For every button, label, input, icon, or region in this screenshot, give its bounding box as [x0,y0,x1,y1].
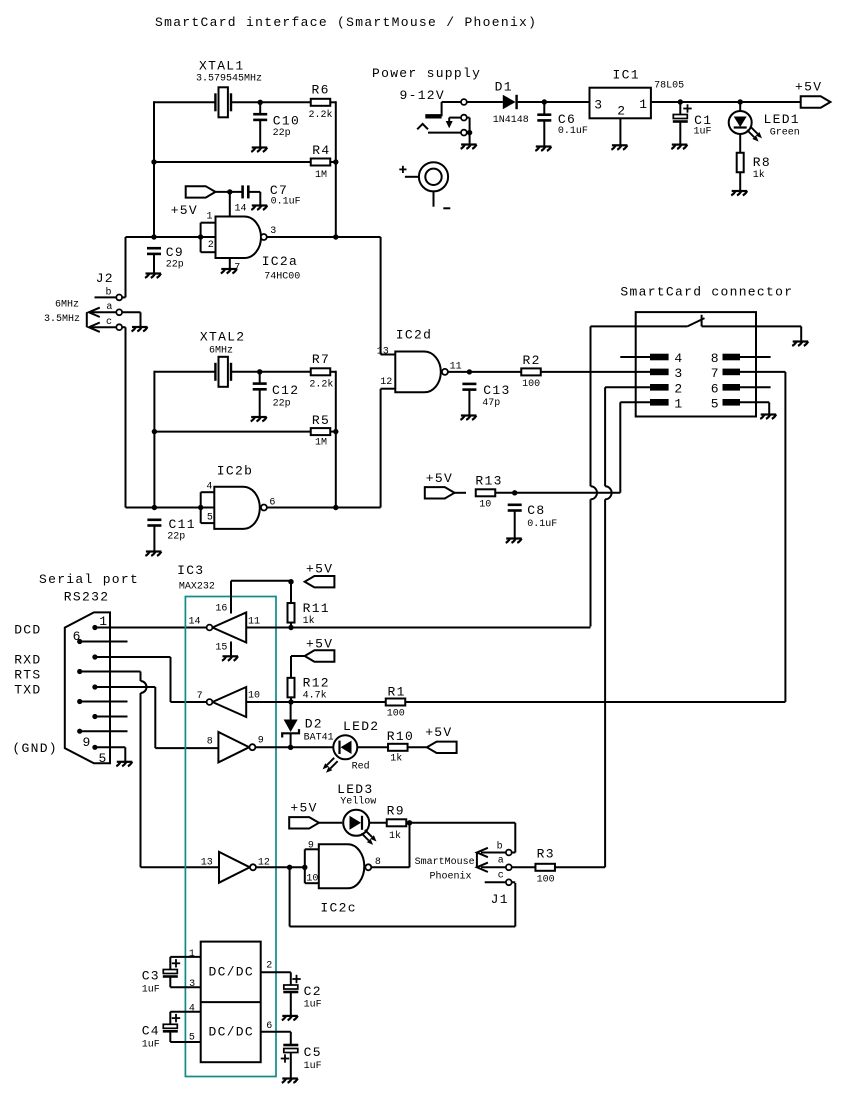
svg-text:+5V: +5V [290,801,317,816]
bubble IC2b output [261,505,267,511]
pad card pin 6 [711,381,740,396]
wire XTAL1 top rail [154,101,311,103]
svg-text:3.5MHz: 3.5MHz [44,314,80,325]
wire R7 to right vertical [330,371,336,508]
svg-text:C10: C10 [273,113,300,128]
svg-text:R8: R8 [753,155,771,170]
signal label RTS [14,668,41,683]
svg-text:14: 14 [235,204,247,215]
wire DB9 pin9 stub [80,730,128,732]
svg-text:7: 7 [711,366,720,381]
capacitor C1 [673,104,713,137]
wire R11 stem bottom [290,623,292,628]
pad card pin 2 [650,381,684,396]
wire C9 stem [153,254,155,274]
svg-text:8: 8 [711,351,720,366]
wire RTS net [80,672,219,868]
svg-text:0.1uF: 0.1uF [271,197,301,208]
svg-text:R11: R11 [303,601,330,616]
resistor R11 [288,601,330,627]
wire D2 stem [290,702,292,747]
svg-text:D2: D2 [305,717,323,732]
svg-text:C11: C11 [169,517,196,532]
wire GND pin5 stub [95,747,125,762]
connector J2 label [96,271,114,286]
pin label 11 IC3 [248,617,260,628]
dcdc converter box [201,942,261,1063]
svg-text:47p: 47p [482,398,500,409]
pin label 5 DB9 [99,751,108,766]
node IC2b bracket junction [198,505,203,510]
svg-text:1uF: 1uF [694,127,712,138]
svg-text:R10: R10 [387,729,414,744]
svg-text:1uF: 1uF [304,1061,322,1072]
svg-text:6: 6 [711,381,720,396]
ground card pin5 [760,415,776,419]
svg-text:2.2k: 2.2k [309,378,333,390]
resistor R12 [288,676,330,702]
pin J2-c [106,317,122,330]
wire DB9 pin4 stub [95,716,128,718]
pin DB9 left-col 8 [77,699,82,704]
node IC2b out right vertical [333,505,338,510]
resistor R10 [387,729,414,765]
svg-text:1k: 1k [390,753,402,765]
svg-text:IC2b: IC2b [217,464,253,479]
smartcard connector heading [620,285,793,300]
svg-text:+5V: +5V [171,203,198,218]
pin label 11 IC2d [450,362,462,373]
svg-text:TXD: TXD [14,683,41,698]
svg-text:DC/DC: DC/DC [209,1025,255,1040]
node IC2c bracket junction [302,865,307,870]
svg-text:RTS: RTS [14,668,41,683]
node pin14 junction [227,189,232,194]
wire IC2b input feed [126,507,215,509]
svg-text:10: 10 [248,691,260,702]
wire IC2b input bracket [201,492,215,523]
wire jack to D1 [467,101,503,103]
svg-text:IC1: IC1 [613,68,640,83]
wire R2 to card pin3 [541,371,650,373]
capacitor C11 [147,517,195,543]
power flag +5V R13 [425,471,455,499]
svg-text:BAT41: BAT41 [304,733,334,744]
svg-text:2: 2 [208,240,214,251]
svg-text:4.7k: 4.7k [303,690,327,702]
wire DCD pin1 to T1 [95,627,207,629]
LED LED3 [337,782,376,845]
svg-text:IC2d: IC2d [396,328,432,343]
pin label 12 IC3 [258,858,270,869]
wire J2-b stub [95,296,117,298]
svg-text:3: 3 [594,98,603,113]
wire C6 stem [543,102,545,147]
wire card switch right [702,326,802,341]
regulator IC1 [590,68,685,119]
pin label 9 DB9 [83,735,92,750]
wire hop RTS over TXD [141,681,147,693]
pin label 14 IC3 [189,617,201,628]
wire IC2c input bracket [305,849,319,883]
svg-text:15: 15 [215,643,227,654]
pin label 4 IC2b [206,481,212,492]
wire C1 stem [679,102,681,145]
smartcard connector box [636,312,756,416]
svg-text:XTAL2: XTAL2 [200,330,246,345]
wire J1-c stub [485,881,506,883]
wire IC2a input bracket [201,223,216,253]
wire card pin5 to ground [740,402,769,414]
svg-text:IC2a: IC2a [262,254,298,269]
wire R3 to card pin2 net [555,866,605,868]
bubble IC2c output [365,864,371,870]
pin label 9 IC3 [258,736,264,747]
ground C13 [460,416,476,420]
capacitor C3 [142,959,181,995]
ground C6 [535,147,551,151]
svg-text:1: 1 [639,97,648,112]
buffer IC3 T2 [213,687,247,717]
bubble IC3 T4 output [250,864,256,870]
ground C1 [671,145,687,149]
pin J2-a [106,302,122,315]
diode D1 [493,80,529,127]
power flag +5V IC2a [171,186,216,218]
pin DB9 right-col 5 [92,745,97,750]
svg-text:8: 8 [375,857,381,868]
svg-text:1k: 1k [753,169,765,181]
pin DB9 left-col 6 [77,639,82,644]
op-gate IC2d NAND [395,328,441,393]
svg-text:C9: C9 [166,245,184,260]
resistor R2 [521,353,541,390]
wire J2-b up [122,237,125,297]
resistor R1 [386,685,406,720]
ground C7 [251,206,267,210]
svg-text:IC3: IC3 [177,563,204,578]
pin label 6 dcdc [266,1021,272,1032]
wire hop pin2 net over R13 line [605,486,612,499]
node R9 output [407,820,412,825]
LED LED1 [729,111,800,142]
arrow J1 select SmartMouse [415,848,488,868]
svg-text:1N4148: 1N4148 [493,115,529,126]
pin J1-a [498,856,512,871]
wire +5V to LED3 [319,822,342,824]
pin label 14 IC2a [235,204,247,215]
resistor R8 [737,153,771,181]
capacitor C5 [281,1045,322,1072]
bubble IC3 T2 output [207,699,213,705]
svg-text:LED3: LED3 [337,782,373,797]
svg-text:9: 9 [258,736,264,747]
svg-text:1: 1 [207,212,213,223]
pin label 2 IC2a [208,240,214,251]
svg-text:LED2: LED2 [343,719,379,734]
power flag +5V R11 [305,562,335,588]
wire R9 to J1-b net [406,823,515,853]
svg-text:+5V: +5V [795,80,822,95]
diode D2 BAT41 [282,717,333,744]
capacitor C8 [508,503,558,530]
pin label 5 IC2b [207,512,213,523]
svg-text:1M: 1M [315,170,327,181]
svg-text:0.1uF: 0.1uF [558,126,588,137]
ground IC2a pin7 [221,269,237,273]
svg-text:R9: R9 [387,804,405,819]
pin J1-c [498,871,512,886]
svg-text:11: 11 [248,617,260,628]
wire jack sleeve to ground [467,118,470,145]
svg-text:MAX232: MAX232 [179,582,215,593]
signal label TXD [14,683,41,698]
svg-text:DC/DC: DC/DC [209,965,255,980]
pin label 1 IC2a [207,212,213,223]
svg-text:R13: R13 [475,474,502,489]
bubble IC2a output [261,234,267,240]
IC3 box outline [185,597,276,1077]
ground C9 [145,274,161,278]
pin label 4 dcdc [189,1004,195,1015]
svg-text:RS232: RS232 [64,590,110,605]
pin label 8 IC2c [375,857,381,868]
wire IC2d output [448,371,521,373]
svg-text:C12: C12 [272,383,299,398]
ground card switch [792,342,808,346]
wire C7 to ground [248,192,260,206]
svg-text:7: 7 [197,691,203,702]
wire DB9 pin8 stub [80,701,128,703]
power flag +5V LED3 [289,801,319,829]
svg-text:22p: 22p [167,532,185,543]
op-gate IC2b NAND [214,464,260,529]
svg-text:0.1uF: 0.1uF [527,519,557,530]
wire T2 out row [246,701,386,703]
capacitor C9 [147,245,184,271]
wire J2-c down [122,327,125,507]
node IC2a input junction [198,234,203,239]
pin label 2 dcdc [266,961,272,972]
wire card pin6 stub [740,386,771,388]
svg-text:1k: 1k [389,830,401,842]
wire TXD net [95,687,218,748]
node XTAL2-C12 junction [257,369,262,374]
arrow J2 select 6MHz [55,300,100,318]
pad card pin 4 [650,351,684,366]
pin label 13 IC3 [201,858,213,869]
wire R6 to right vertical [330,101,336,237]
pin J1-b [497,841,512,856]
ground IC1 [611,145,627,149]
wire C3 loop [170,957,200,987]
wire card switch left [591,325,688,327]
svg-text:1k: 1k [303,615,315,627]
svg-text:22p: 22p [273,128,291,139]
wire C8 stem [514,511,516,539]
svg-text:(GND): (GND) [12,741,58,756]
pad card pin 5 [711,396,740,411]
node LED1 junction [738,99,743,104]
connector J1 label [491,892,509,907]
ground DB9 pin5 [116,762,132,766]
wire RXD net [95,657,207,702]
svg-text:2.2k: 2.2k [309,109,333,121]
capacitor C4 [142,1014,181,1050]
resistor R5 [311,413,331,449]
svg-text:C6: C6 [558,112,576,127]
svg-text:R5: R5 [312,413,330,428]
node R11 top [288,579,293,584]
svg-text:3: 3 [189,979,195,990]
svg-text:6MHz: 6MHz [55,300,79,311]
capacitor C13 [462,383,510,409]
resistor R9 [387,804,407,843]
node R12 bottom [288,699,293,704]
svg-text:8: 8 [207,737,213,748]
svg-text:SmartCard connector: SmartCard connector [620,285,793,300]
pin label 3 IC2a [270,226,276,237]
wire J1-b stub [481,852,506,854]
svg-text:R7: R7 [312,352,330,367]
svg-text:RXD: RXD [14,653,41,668]
wire R12 from +5V [291,656,305,682]
wire IC2b output [267,389,381,508]
wire T4 to IC2c input [256,866,305,868]
svg-text:2: 2 [674,381,683,396]
bubble IC3 T3 output [249,744,255,750]
pin label 1 DB9 [99,614,108,629]
buffer IC3 T4 [219,852,250,883]
svg-text:C2: C2 [304,984,322,999]
wire card pin7 net [740,372,785,702]
power flag +5V R12 [305,637,335,662]
svg-text:Red: Red [352,761,370,773]
wire R9 node down to IC2c out [371,823,409,868]
svg-text:+5V: +5V [425,725,452,740]
node jack sleeve junction [467,130,472,135]
wire IC2d pin13 stub [381,354,396,356]
svg-text:R4: R4 [312,143,330,158]
wire J2 arrow bar [86,312,88,327]
wire IC2a output [267,237,381,355]
pin label 9 IC2c [308,841,314,852]
svg-text:Green: Green [770,128,800,139]
svg-text:10: 10 [479,500,491,511]
wire hop switch net over R13 line [591,486,598,499]
wire XTAL2 left vertical [153,371,155,508]
pad card pin 1 [650,396,684,411]
pad card pin 8 [711,351,740,366]
svg-text:C13: C13 [483,383,510,398]
pin DB9 right-col 3 [92,684,97,689]
svg-text:11: 11 [450,362,462,373]
wire DB9 pin6 stub [80,641,128,643]
wire C13 stem [468,390,470,416]
svg-text:3: 3 [674,366,683,381]
ground C8 [506,539,522,543]
svg-text:100: 100 [387,709,405,720]
node D2 bottom [288,745,293,750]
wire pin2 to C2 [261,972,291,1016]
wire +5V to pin14 [215,192,242,217]
power jack [417,99,467,135]
svg-text:C4: C4 [142,1023,160,1038]
svg-text:C8: C8 [527,503,545,518]
pin label 6 DB9 [73,629,82,644]
wire R11 stem top [290,582,292,608]
node R4 right [333,159,338,164]
svg-text:C3: C3 [142,969,160,984]
wire card pin4 stub [620,356,650,358]
node C13 junction [467,369,472,374]
signal label DCD [14,623,41,638]
wire XTAL2 rail [154,371,311,373]
node R11 bottom [288,625,293,630]
pin J2-b [106,287,123,301]
svg-text:13: 13 [201,858,213,869]
LED LED2 [323,719,380,773]
IC3 label [177,563,215,593]
pin label 10 IC2c [306,874,318,885]
node R5 right [333,429,338,434]
pin label 5 dcdc [189,1033,195,1044]
power flag +5V rail [795,80,830,108]
resistor R6 [309,83,333,122]
ground C10 [251,148,267,152]
svg-text:Phoenix: Phoenix [429,871,471,883]
node C1 junction [678,99,683,104]
ground R8 [731,191,747,195]
svg-text:9: 9 [83,735,92,750]
pin label 3 dcdc [189,979,195,990]
wire IC2a input feed [126,236,216,238]
capacitor C10 [253,113,300,139]
node IC2a out right vertical [333,234,338,239]
wire C4 loop [170,1012,200,1042]
wire left vertical x154 [153,101,155,237]
wire R13 net to card pin1 [515,492,621,494]
svg-text:2: 2 [617,104,626,119]
svg-text:9-12V: 9-12V [400,88,446,103]
svg-text:1: 1 [674,396,683,411]
capacitor C7 [243,183,301,208]
svg-text:Yellow: Yellow [340,796,376,808]
wire IC2c feedback loop [290,867,516,926]
svg-text:+5V: +5V [306,562,333,577]
svg-text:22p: 22p [273,399,291,410]
svg-text:4: 4 [189,1004,195,1015]
pin DB9 right-col 4 [92,714,97,719]
pin label 8 IC3 [207,737,213,748]
svg-text:a: a [498,856,504,867]
svg-text:4: 4 [674,351,683,366]
node C6 junction [542,99,547,104]
ground C12 [251,417,267,421]
resistor R4 [311,143,331,181]
svg-text:R3: R3 [537,847,555,862]
node XTAL1-C10 junction [258,100,263,105]
wire LED3 to R9 [369,822,387,824]
wire C10 stem [259,102,261,147]
wire card pin8 stub [740,356,771,358]
svg-text:6MHz: 6MHz [209,346,233,357]
buffer IC3 T3 [218,732,249,762]
svg-text:SmartCard interface (SmartMous: SmartCard interface (SmartMouse / Phoeni… [155,15,537,30]
wire IC1 pin2 to ground [619,118,621,145]
ground C11 [145,552,161,556]
svg-text:D1: D1 [495,80,513,95]
